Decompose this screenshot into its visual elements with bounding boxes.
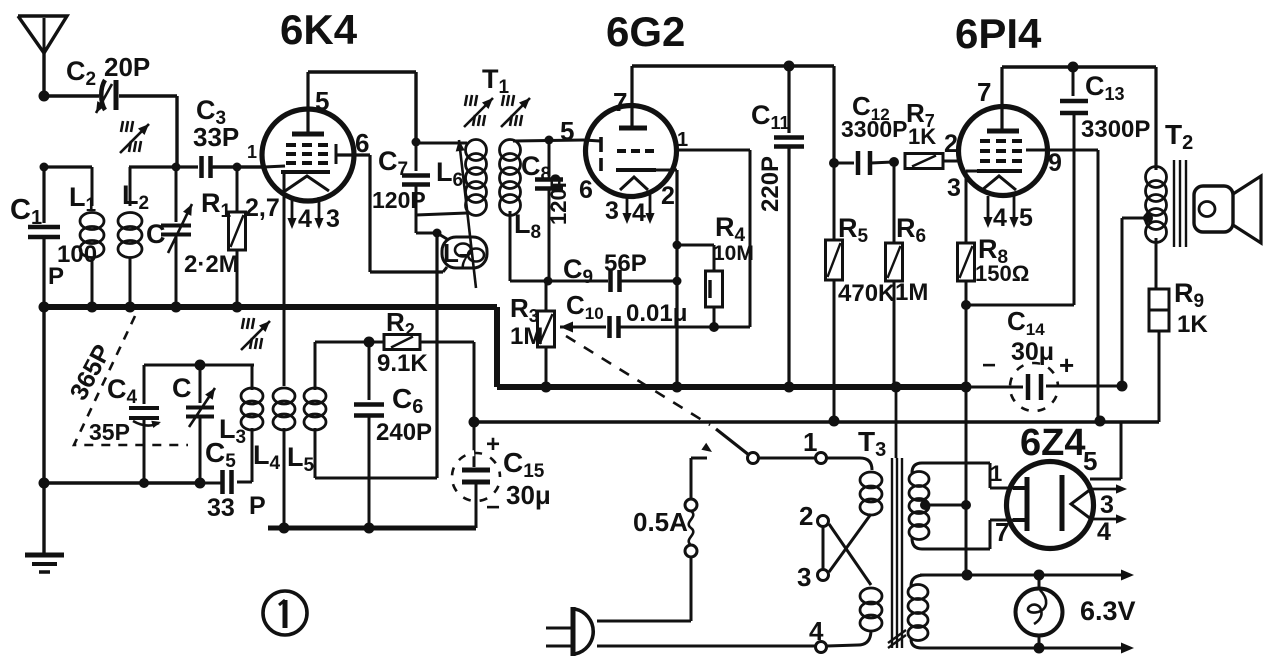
node C6 bottom xyxy=(364,523,375,534)
6Z4 cathode bar right xyxy=(1060,475,1065,531)
wire T3 core ground xyxy=(895,387,898,458)
wire L5/C6 bottom xyxy=(315,477,437,480)
node L4 bottom xyxy=(279,523,290,534)
capacitor C13 3300P xyxy=(966,67,1088,305)
terminal 3 xyxy=(818,570,829,581)
resistor R7 1K xyxy=(905,154,959,169)
svg-text:2: 2 xyxy=(661,182,675,210)
svg-text:9: 9 xyxy=(1048,149,1062,177)
svg-text:2·2M: 2·2M xyxy=(184,251,239,278)
wire HV bottom to 6Z4 pin7 xyxy=(990,520,1013,549)
tube 6P14 envelope xyxy=(959,107,1048,196)
wire B+ rail xyxy=(474,420,1159,423)
resistor R2 9.1K xyxy=(384,335,420,350)
svg-text:30μ: 30μ xyxy=(506,480,551,510)
svg-text:4: 4 xyxy=(632,199,646,227)
6G2 heater arrows xyxy=(622,194,654,224)
wire L8 bottom to R3/C9 xyxy=(510,280,608,283)
svg-text:5: 5 xyxy=(1019,204,1033,232)
node C5/C bottom xyxy=(195,478,206,489)
wire pin5 grid lead xyxy=(584,140,600,141)
svg-text:30μ: 30μ xyxy=(1011,338,1054,366)
node C11 top xyxy=(784,61,795,72)
6P14 heater arrows xyxy=(983,196,1018,228)
resistor R1 2.2M xyxy=(229,167,246,307)
wire screen tank top xyxy=(315,341,384,344)
T3 HV center tap xyxy=(920,500,971,575)
svg-text:4: 4 xyxy=(993,204,1007,232)
wire R2 right to B+ xyxy=(420,342,474,422)
trimmer core symbol near C2 xyxy=(120,121,149,153)
wire HV top to 6Z4 pin1 xyxy=(990,463,1013,488)
T3 primary cross links xyxy=(829,514,871,585)
transformer T3 HV secondary xyxy=(909,463,990,549)
svg-text:−: − xyxy=(982,352,996,379)
node C14 plus / T2 tap xyxy=(1117,381,1128,392)
node R7 left xyxy=(889,157,899,167)
6K4 heater xyxy=(285,176,329,191)
antenna xyxy=(18,16,67,53)
svg-text:220P: 220P xyxy=(757,156,784,212)
node C8 top xyxy=(545,136,554,145)
wire padder ground return xyxy=(44,481,200,484)
wire ground bus (middle) xyxy=(497,384,966,390)
svg-text:3: 3 xyxy=(797,562,811,592)
wire switch to T3 tap 1 xyxy=(759,457,815,460)
capacitor C3 xyxy=(176,156,263,178)
svg-text:1M: 1M xyxy=(895,279,928,306)
svg-text:0.5A: 0.5A xyxy=(633,507,688,537)
svg-text:4: 4 xyxy=(809,616,824,646)
svg-text:1K: 1K xyxy=(1177,311,1208,338)
wire 6P14 pin9 screen to B+ xyxy=(1026,150,1098,421)
svg-text:4: 4 xyxy=(298,205,312,233)
svg-text:470K: 470K xyxy=(838,280,896,307)
svg-text:6K4: 6K4 xyxy=(280,6,358,53)
inductor L2 xyxy=(118,167,176,307)
switch arm xyxy=(716,429,759,464)
inductor L7 xyxy=(437,233,487,272)
svg-text:2,7: 2,7 xyxy=(245,194,280,222)
adjustable core symbols T1 xyxy=(464,95,530,127)
6K4 internal screen tie to pin 6 xyxy=(264,144,336,167)
6K4 cathode xyxy=(281,170,330,174)
transformer T3 filament winding xyxy=(908,575,928,648)
resistor R3 1M xyxy=(538,281,555,387)
node L1 wire xyxy=(40,163,49,172)
wire 6K4 pin5 to T1 top xyxy=(308,72,416,141)
node bus end R8 column xyxy=(961,382,972,393)
svg-text:C: C xyxy=(146,219,166,249)
svg-text:150Ω: 150Ω xyxy=(975,261,1029,286)
speaker xyxy=(1194,176,1261,243)
svg-text:3: 3 xyxy=(326,205,340,233)
node bus R6 / T3 core xyxy=(891,382,902,393)
svg-text:5: 5 xyxy=(1083,446,1097,476)
node C9 right xyxy=(673,277,682,286)
wire bus step down xyxy=(494,307,500,387)
resistor R6 1M xyxy=(886,162,903,387)
capacitor C7 120P xyxy=(402,142,430,215)
capacitor C15 30u electrolytic xyxy=(452,422,500,528)
resistor R8 150ohm xyxy=(958,243,975,305)
variable capacitor C (gang 1) xyxy=(161,167,192,307)
svg-text:3: 3 xyxy=(947,174,961,202)
transformer T3 primary lower xyxy=(827,588,882,646)
svg-text:6PI4: 6PI4 xyxy=(955,10,1042,57)
svg-text:C: C xyxy=(172,373,192,403)
6G2 pin2 lead xyxy=(655,169,677,172)
node R3 top xyxy=(544,277,553,286)
6G2 diode anodes at pin5 side xyxy=(599,137,603,171)
svg-text:+: + xyxy=(1059,350,1074,380)
node B+ screen/R9 xyxy=(1095,416,1106,427)
label 100 P xyxy=(48,241,97,290)
wire 6Z4 plate pin5 to B+ xyxy=(1090,421,1121,479)
node antenna/C2 junction xyxy=(39,91,50,102)
svg-text:5: 5 xyxy=(315,86,329,116)
capacitor C12 3300P xyxy=(834,151,894,175)
circled 1 mark xyxy=(263,591,307,635)
wire 6G2 cathode column xyxy=(675,170,678,387)
6G2 anode and pin7 riser xyxy=(619,66,647,128)
resistor R4 10M xyxy=(677,245,723,327)
node B+ R2/C15 xyxy=(469,417,480,428)
wire plug to fuse xyxy=(597,557,691,621)
adjustable core symbol above L4 xyxy=(241,318,270,350)
svg-text:35P: 35P xyxy=(89,419,130,445)
T2 primary tap to C14 xyxy=(1122,213,1153,386)
svg-text:6Z4: 6Z4 xyxy=(1020,422,1085,464)
wire filament line top xyxy=(920,570,1134,581)
tube 6Z4 envelope xyxy=(1007,462,1094,549)
6Z4 filament V xyxy=(1071,489,1091,519)
svg-text:120P: 120P xyxy=(546,174,571,225)
wire C2 top xyxy=(44,94,99,97)
fuse 0.5A xyxy=(685,499,697,557)
wire plug to tap 4 xyxy=(597,645,815,648)
inductor L4 xyxy=(273,388,295,528)
tube 6G2 envelope xyxy=(586,106,677,197)
wire antenna lead xyxy=(42,50,45,95)
svg-text:240P: 240P xyxy=(376,419,432,446)
node lamp bottom xyxy=(1034,643,1045,654)
wire 6K4 plate pin6 to L7 xyxy=(336,155,443,272)
6G2 grid dashes xyxy=(617,149,654,153)
node bus C11 xyxy=(784,382,795,393)
wire 6P14 cathode lead xyxy=(966,171,977,243)
node C12 left junction xyxy=(829,158,839,168)
resistor R9 1K xyxy=(1149,289,1169,421)
svg-text:P: P xyxy=(48,263,64,290)
svg-text:1: 1 xyxy=(990,461,1002,486)
capacitor C9 56P xyxy=(611,270,678,292)
capacitor C14 30u electrolytic xyxy=(966,363,1122,411)
inductor L6 xyxy=(416,140,487,216)
wire taps 2-3 xyxy=(822,527,825,569)
node bus dots xyxy=(39,302,243,313)
wire padder top xyxy=(144,364,254,367)
svg-text:7: 7 xyxy=(613,87,627,117)
node C4 bottom xyxy=(139,478,149,488)
wire diode plate pin1 xyxy=(676,150,750,327)
mains plug xyxy=(546,607,593,656)
svg-text:9.1K: 9.1K xyxy=(377,350,428,377)
node lamp top xyxy=(1034,570,1045,581)
transformer T2 primary xyxy=(1146,167,1167,290)
svg-text:7: 7 xyxy=(977,77,991,107)
6K4 anode plate and pin 5 riser xyxy=(292,72,324,134)
inductor L1 xyxy=(80,167,104,307)
dashed gang link 365P xyxy=(74,316,188,445)
transformer T3 primary upper xyxy=(827,458,882,515)
terminal 4 xyxy=(816,642,827,653)
svg-text:1K: 1K xyxy=(908,124,936,149)
wire filament line bottom xyxy=(920,643,1134,654)
svg-text:3300P: 3300P xyxy=(1081,116,1150,143)
capacitor C1 xyxy=(28,167,60,307)
wire L6 bottom jog xyxy=(416,215,436,233)
node C7/L6 top xyxy=(412,138,421,147)
terminal 2 xyxy=(818,516,829,527)
svg-text:20P: 20P xyxy=(104,52,150,82)
node R4 top xyxy=(673,241,682,250)
svg-text:5: 5 xyxy=(560,116,574,146)
svg-text:6: 6 xyxy=(579,176,593,204)
capacitor C10 0.01u with arrow to R3 xyxy=(560,316,750,338)
capacitor C8 xyxy=(535,140,563,281)
node R8 bottom xyxy=(961,300,971,310)
T3 core xyxy=(888,458,906,648)
node padder/L3 top xyxy=(195,360,206,371)
svg-text:1: 1 xyxy=(803,427,817,457)
6K4 heater pin arrows 4 and 3 xyxy=(287,197,323,229)
capacitor C11 220P xyxy=(774,66,804,387)
variable capacitor C (gang 2) xyxy=(186,365,215,483)
ground xyxy=(25,555,64,572)
wire cathode thick line xyxy=(268,526,476,531)
wire 6G2 plate top rail xyxy=(632,66,834,162)
node filament/center tap xyxy=(962,570,973,581)
capacitor C4 35P trimmer xyxy=(129,365,161,483)
node ground line / padder line xyxy=(39,478,50,489)
6P14 cathode xyxy=(977,169,1022,173)
node bus R3 xyxy=(541,382,552,393)
capacitor C6 240P xyxy=(354,342,384,528)
wire antenna node to L1 xyxy=(44,165,92,168)
inductor L5 xyxy=(304,342,326,478)
wire 6K4 cathode to L4 (2,7) xyxy=(283,172,286,386)
resistor R5 470K xyxy=(826,163,843,421)
inductor L3 xyxy=(237,365,263,482)
wire fuse to switch contact xyxy=(691,443,712,499)
6K4 grids (dashed rows) xyxy=(286,145,328,163)
svg-text:P: P xyxy=(249,492,266,520)
svg-text:−: − xyxy=(486,494,500,521)
pilot lamp 6.3V xyxy=(1016,575,1063,648)
node C2/L2/C3 junction xyxy=(172,163,181,172)
wire C2 to L2 column xyxy=(119,96,177,166)
6P14 grid dashes xyxy=(980,141,1022,161)
svg-text:120P: 120P xyxy=(372,187,426,213)
inductor L8 xyxy=(500,140,585,282)
svg-text:3: 3 xyxy=(605,197,619,225)
wire 6K4 grid lead xyxy=(213,165,264,168)
svg-text:6G2: 6G2 xyxy=(606,8,685,55)
6Z4 anode bar left xyxy=(1025,477,1030,531)
svg-text:6.3V: 6.3V xyxy=(1080,596,1136,626)
svg-text:33: 33 xyxy=(207,494,235,522)
6Z4 pin7 stub xyxy=(1013,518,1027,522)
svg-text:3: 3 xyxy=(1100,491,1114,519)
svg-text:1M: 1M xyxy=(510,323,543,350)
wire antenna ground drop xyxy=(42,307,45,554)
svg-text:+: + xyxy=(486,431,500,458)
wire ground bus (left) xyxy=(44,304,497,310)
6Z4 filament arrows pins 3,4 xyxy=(1091,484,1127,523)
capacitor C5 33P xyxy=(200,470,232,494)
adjustable core arrow through L6/L7 xyxy=(459,140,476,288)
6Z4 pin1 stub xyxy=(1013,486,1027,490)
node C6 top xyxy=(364,337,375,348)
wire T1 to oscillator tank xyxy=(435,233,438,478)
node R4 bottom xyxy=(709,322,719,332)
svg-text:10M: 10M xyxy=(713,242,754,265)
capacitor C2 xyxy=(96,80,116,113)
wire 6P14 plate to C13/T2 xyxy=(1002,67,1156,170)
node C13 top xyxy=(1068,62,1079,73)
wire R8 to T3 center tap xyxy=(965,305,968,575)
node B+ R5 xyxy=(829,416,840,427)
tube 6K4 envelope xyxy=(262,109,354,201)
6P14 anode and pin7 riser xyxy=(987,67,1019,131)
dashed link volume/switch xyxy=(566,336,710,425)
svg-text:7: 7 xyxy=(995,517,1009,547)
node C3/R1 junction xyxy=(233,163,242,172)
svg-text:33P: 33P xyxy=(193,122,239,152)
node L7/tank junction xyxy=(433,229,442,238)
6G2 heater xyxy=(620,177,648,190)
svg-text:1: 1 xyxy=(677,129,688,151)
terminal 1 xyxy=(816,453,827,464)
svg-text:1: 1 xyxy=(247,142,257,162)
svg-text:2: 2 xyxy=(799,501,813,531)
svg-text:56P: 56P xyxy=(604,250,647,277)
6P14 heater xyxy=(982,176,1016,190)
6G2 cathode xyxy=(616,168,656,172)
node bus 6G2 cathode xyxy=(672,382,683,393)
T2 core xyxy=(1174,160,1186,247)
svg-text:2: 2 xyxy=(944,130,958,158)
svg-text:4: 4 xyxy=(1097,518,1111,546)
svg-text:3300P: 3300P xyxy=(841,116,908,142)
